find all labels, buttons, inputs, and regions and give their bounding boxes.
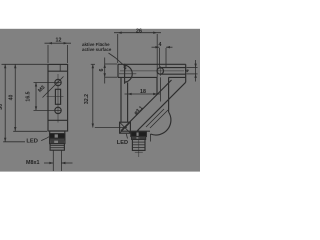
LED leader left: [41, 136, 50, 140]
svg-text:12: 12: [56, 38, 62, 44]
bottom hole: [55, 107, 61, 113]
knuckle chords: [146, 109, 164, 127]
connector right view: [131, 132, 147, 137]
slot: [55, 89, 60, 104]
LED window square: [120, 122, 131, 133]
dim 40 (body height): [14, 64, 16, 131]
svg-text:4: 4: [185, 69, 191, 72]
dim 18: [125, 93, 161, 95]
bottom face: [121, 130, 150, 132]
svg-text:LED: LED: [117, 140, 128, 146]
body vertical edges left: [120, 77, 122, 122]
top extension line to left margin: [2, 63, 48, 65]
head parting line: [48, 70, 68, 72]
head front edge tick: [59, 64, 61, 71]
svg-text:active surface: active surface: [82, 47, 112, 52]
svg-text:18: 18: [140, 89, 146, 95]
dim 12: [47, 45, 49, 63]
45 deg body: [156, 77, 158, 95]
svg-text:50: 50: [0, 104, 4, 110]
knuckle arc: [151, 112, 171, 135]
center line through sensing area and slot: [120, 70, 184, 72]
dim M8x1: [52, 150, 54, 171]
svg-text:32.2: 32.2: [84, 94, 90, 104]
lower edge chamfer from bar corner: [137, 82, 186, 131]
dim 4 top: [158, 48, 160, 68]
inner edge below bar: [159, 77, 161, 101]
dim 26: [117, 34, 119, 63]
long edge + leader for dia 3.1: [121, 80, 172, 131]
svg-text:16.5: 16.5: [25, 91, 31, 101]
dim 6: [104, 58, 106, 84]
active surface leader: [109, 53, 126, 67]
svg-text:LED: LED: [26, 139, 38, 145]
M3 leader: [43, 77, 64, 98]
svg-text:6: 6: [99, 68, 105, 71]
svg-text:M8x1: M8x1: [26, 160, 40, 166]
D sensing element: [124, 64, 126, 84]
bottom parting line: [48, 119, 68, 121]
connector left view: [50, 131, 65, 134]
head bar: [118, 63, 186, 65]
dim 16.5: [35, 83, 37, 111]
svg-text:4: 4: [159, 42, 162, 48]
svg-text:26: 26: [136, 28, 142, 34]
center line bottom: [57, 74, 59, 123]
body outline: [48, 64, 68, 131]
background panel: [0, 0, 200, 200]
dim outer (to connector): [4, 64, 6, 142]
bar right edge extension: [185, 77, 187, 82]
M3 hole: [55, 79, 61, 85]
dim 4 right: [187, 67, 198, 69]
dim 32.2: [92, 64, 94, 127]
svg-text:40: 40: [9, 95, 15, 101]
slot: [157, 68, 164, 75]
LED leader right: [126, 134, 127, 139]
